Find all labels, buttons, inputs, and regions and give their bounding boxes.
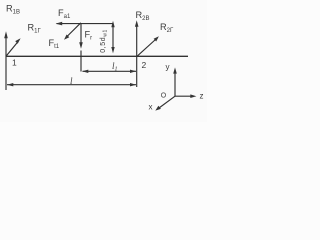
arrowhead Ft1 tip	[64, 35, 69, 40]
svg-text:O: O	[161, 93, 167, 100]
svg-text:1: 1	[12, 58, 17, 68]
force Ft1 shaft	[67, 23, 81, 37]
dimension line l1	[83, 70, 137, 72]
arrowhead R2G tip	[154, 36, 159, 41]
arrowhead axis x tip	[155, 106, 161, 111]
arrowhead axis z right	[190, 94, 196, 98]
arrowhead dim l1 right	[130, 70, 136, 73]
arrowhead R1G tip	[15, 38, 20, 44]
upper gear line at radius	[57, 23, 114, 25]
extension line below Fr	[80, 51, 82, 72]
arrowhead Fr down	[79, 42, 83, 48]
arrowhead axis y up	[173, 67, 177, 73]
svg-text:x: x	[149, 103, 153, 112]
arrowhead R2B up	[135, 20, 139, 27]
force Fr shaft	[80, 24, 82, 45]
arrowhead dim 0.5dw1 down	[111, 47, 114, 53]
arrowhead Fa1 left	[56, 22, 63, 26]
arrowhead dim l right	[130, 83, 136, 86]
reaction arrow R1G shaft	[6, 42, 18, 56]
svg-text:y: y	[166, 63, 170, 72]
arrowhead R1B up	[4, 31, 8, 38]
dimension line l	[7, 84, 136, 86]
coordinate axis y shaft	[174, 72, 176, 97]
arrowhead dim 0.5dw1 up	[111, 21, 114, 27]
reaction arrow R2G shaft	[137, 40, 156, 57]
arrowhead dim l left	[7, 83, 13, 86]
coordinate axis z shaft	[175, 95, 192, 97]
arrowhead dim l1 left	[82, 70, 88, 73]
reaction arrow R1B shaft	[5, 34, 7, 90]
reaction arrow R2B shaft / extension line 2	[136, 25, 138, 88]
svg-text:z: z	[200, 92, 204, 101]
coordinate axis x shaft	[160, 96, 176, 107]
svg-text:2: 2	[142, 60, 147, 70]
dimension line 0.5dw1 shaft	[112, 25, 114, 50]
shaft axis line 1-2	[6, 55, 189, 57]
